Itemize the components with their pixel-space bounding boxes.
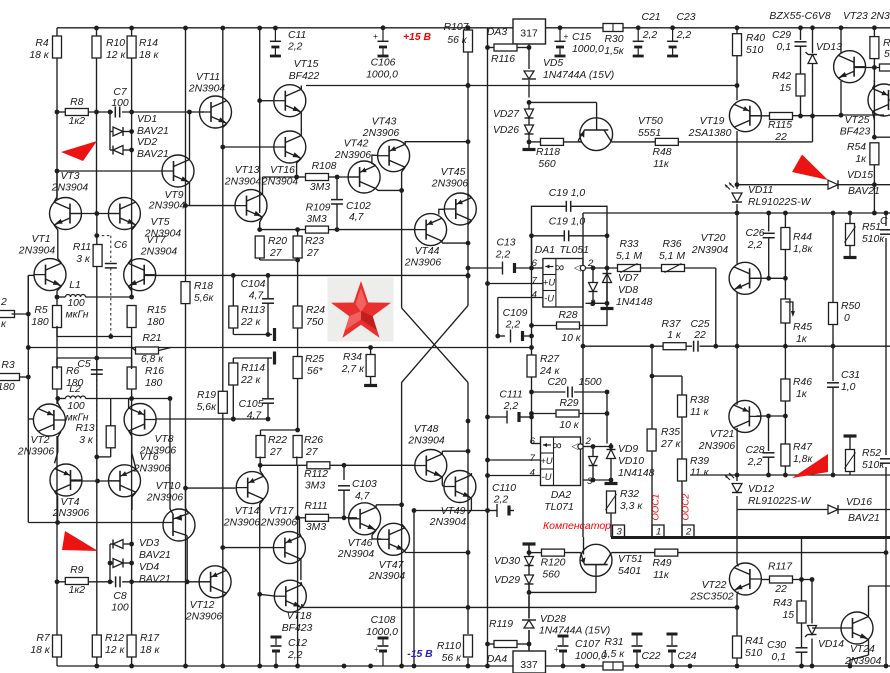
svg-text:R42: R42 <box>772 71 791 82</box>
svg-text:4: 4 <box>532 290 537 301</box>
wire VT2 leads <box>55 399 61 464</box>
node da1p7 dot <box>485 281 490 286</box>
svg-text:мкГн: мкГн <box>66 310 89 321</box>
wire col x886 <box>885 213 887 666</box>
svg-text:BAV21: BAV21 <box>139 574 171 585</box>
wire VT13 leads <box>260 177 297 230</box>
svg-text:R111: R111 <box>304 501 327 512</box>
transistor VT6 pnp <box>109 465 141 497</box>
ground R51 <box>844 256 857 259</box>
node r119 dot <box>485 642 490 647</box>
transistor VT42 pnp <box>348 161 380 193</box>
resistor R113 <box>229 306 238 328</box>
svg-text:27 к: 27 к <box>660 439 681 450</box>
wire R119 row <box>488 643 530 645</box>
svg-text:2N3906: 2N3906 <box>146 493 184 504</box>
capacitor C25 <box>694 341 698 352</box>
wire y85 row <box>306 85 737 87</box>
svg-text:VT50: VT50 <box>638 116 663 127</box>
wire col x131.6 <box>131 28 133 666</box>
svg-text:6,8 к: 6,8 к <box>141 354 164 365</box>
resistor R53 <box>870 28 879 137</box>
transistor VT15 <box>274 85 306 117</box>
svg-text:1к: 1к <box>855 154 867 165</box>
svg-text:2N3904: 2N3904 <box>18 246 56 257</box>
svg-text:56 к: 56 к <box>447 35 467 46</box>
resistor R6 <box>53 367 62 389</box>
wire VT16 leads <box>297 159 302 178</box>
capacitor C108 polar <box>374 638 389 666</box>
transistor VT45 pnp <box>444 193 476 225</box>
capacitor C28 <box>763 416 775 475</box>
resistor R18 <box>181 282 190 304</box>
svg-text:2N3904: 2N3904 <box>188 84 226 95</box>
svg-text:VT20: VT20 <box>701 233 726 244</box>
svg-text:VT22: VT22 <box>702 580 727 591</box>
resistor R3 <box>0 374 28 381</box>
svg-text:R15: R15 <box>147 305 166 316</box>
svg-text:22 к: 22 к <box>240 375 261 386</box>
svg-text:R33: R33 <box>619 239 638 250</box>
wire VT15-VT16 <box>300 112 302 135</box>
svg-text:2,2: 2,2 <box>676 30 692 41</box>
node c20 dots <box>529 390 609 395</box>
wire DA2 pin4 <box>488 475 541 477</box>
capacitor C7 <box>115 107 119 118</box>
svg-text:DA4: DA4 <box>487 654 507 665</box>
svg-text:560: 560 <box>542 570 560 581</box>
svg-text:27: 27 <box>269 248 283 259</box>
resistor R7 <box>53 635 62 657</box>
node vt46c dot <box>399 502 404 507</box>
diode VD2 <box>113 146 123 155</box>
svg-text:VD5: VD5 <box>543 58 563 69</box>
resistor R44 <box>781 213 790 278</box>
svg-text:C25: C25 <box>690 319 709 330</box>
resistor R112 <box>307 462 330 469</box>
node vt43 out <box>466 83 471 144</box>
svg-text:R36: R36 <box>662 239 681 250</box>
crossover X wires <box>402 306 468 383</box>
wire col x401.6 <box>401 190 403 666</box>
node vd26 bot <box>527 140 532 145</box>
wire right rail <box>581 344 890 349</box>
svg-text:R32: R32 <box>620 489 639 500</box>
svg-text:1N4148: 1N4148 <box>618 468 655 479</box>
svg-text:R49: R49 <box>652 558 671 569</box>
svg-text:VD14: VD14 <box>818 639 844 650</box>
wire out pin3 <box>586 302 608 304</box>
wire R48 out <box>678 116 812 142</box>
diode VD15 <box>828 180 838 189</box>
svg-text:C13: C13 <box>496 238 515 249</box>
wire L2 row <box>58 398 170 400</box>
wire VD1 branch <box>110 112 132 150</box>
pot R45 <box>781 278 795 346</box>
red marker triangle 3 <box>792 155 828 181</box>
ground R52 <box>844 434 857 437</box>
wire DA1 pin4 <box>498 298 543 337</box>
wire R120 row <box>529 552 581 554</box>
resistor R48 <box>655 138 678 145</box>
resistor R9 <box>65 578 88 585</box>
wire y171 to VT9 <box>57 170 162 172</box>
svg-text:VT1: VT1 <box>31 234 50 245</box>
diode VD27 <box>525 109 534 118</box>
svg-text:R110: R110 <box>437 641 461 652</box>
svg-text:VD29: VD29 <box>494 575 520 586</box>
svg-text:C7: C7 <box>113 87 128 98</box>
svg-text:1000,0: 1000,0 <box>366 70 398 81</box>
svg-text:C111: C111 <box>499 390 522 401</box>
capacitor C23 <box>667 28 678 56</box>
svg-text:R5: R5 <box>34 305 48 316</box>
svg-text:VD30: VD30 <box>494 556 520 567</box>
transistor VT25 pnp <box>868 84 890 116</box>
svg-text:R112: R112 <box>304 469 328 480</box>
node r3 dot <box>26 345 31 379</box>
node VT9 dots <box>183 110 192 208</box>
resistor R116 <box>494 44 517 51</box>
svg-text:VT17: VT17 <box>269 506 295 517</box>
svg-text:C23: C23 <box>676 12 695 23</box>
diode VD29 <box>525 575 534 584</box>
wire VT3-VT5 bases <box>70 213 120 215</box>
node r54 bot <box>872 182 877 187</box>
svg-text:2,2: 2,2 <box>495 250 511 261</box>
resistor R41 <box>733 636 742 666</box>
wire bottom -15V bus <box>57 665 890 667</box>
wire bus y=213 <box>583 212 890 214</box>
svg-text:BF423: BF423 <box>282 623 313 634</box>
node r38 dot <box>650 374 655 379</box>
wire R115 row <box>793 113 844 118</box>
svg-text:TL071: TL071 <box>544 502 573 513</box>
inductor L1 <box>66 295 86 298</box>
svg-text:2,2: 2,2 <box>287 42 303 53</box>
transistor VT16 <box>274 131 306 163</box>
capacitor C20 <box>568 387 572 398</box>
node c105 dots <box>231 417 270 422</box>
node r109 dots <box>257 227 339 232</box>
resistor R22 <box>256 436 265 458</box>
svg-text:R54: R54 <box>847 142 866 153</box>
svg-text:3M3: 3M3 <box>306 522 326 533</box>
svg-text:3: 3 <box>590 298 596 309</box>
wire vt4 bottom join <box>0 0 1 1</box>
wire R8 row <box>57 111 204 113</box>
svg-text:VT48: VT48 <box>414 424 439 435</box>
svg-text:C24: C24 <box>677 651 696 662</box>
svg-text:R108: R108 <box>312 161 337 172</box>
wire VT3 leads <box>54 171 62 263</box>
svg-text:BAV21: BAV21 <box>137 149 169 160</box>
node c111 dots <box>485 415 534 420</box>
svg-text:1: 1 <box>656 527 661 538</box>
transistor VT12 pnp <box>199 566 231 598</box>
svg-text:100: 100 <box>67 401 85 412</box>
wire DA1 pin6 <box>532 267 543 269</box>
svg-text:мкГн: мкГн <box>66 413 89 424</box>
wire VT12 base <box>122 581 210 583</box>
node c31 dots <box>831 344 836 478</box>
svg-text:2N3906: 2N3906 <box>17 447 55 458</box>
svg-text:12 к: 12 к <box>105 645 125 656</box>
resistor R36 slashed <box>641 264 716 273</box>
svg-text:R35: R35 <box>661 427 680 438</box>
svg-text:6: 6 <box>532 258 538 269</box>
svg-text:2,2: 2,2 <box>747 240 763 251</box>
node r112 dots <box>258 463 347 468</box>
capacitor C19a <box>566 201 570 212</box>
svg-text:2N3904: 2N3904 <box>51 183 89 194</box>
svg-text:R119: R119 <box>489 619 513 630</box>
wire R20R23 bottom <box>260 258 298 260</box>
capacitor C30 <box>796 648 808 652</box>
wire col x487.5 <box>487 28 489 666</box>
svg-text:R25: R25 <box>305 354 324 365</box>
node VD dots <box>129 129 134 152</box>
wire r54 right <box>874 136 890 138</box>
wire VT18 base <box>260 594 275 596</box>
wire col x297.6 <box>297 230 299 666</box>
svg-text:12 к: 12 к <box>106 50 126 61</box>
resistor R26 <box>293 436 302 458</box>
svg-text:VT5: VT5 <box>150 217 169 228</box>
svg-text:5401: 5401 <box>618 566 641 577</box>
svg-text:R8: R8 <box>70 97 84 108</box>
node r46 dots <box>766 473 788 478</box>
wire col x833 <box>832 213 834 346</box>
svg-text:C5: C5 <box>77 359 91 370</box>
wire col x222.8 <box>222 28 224 666</box>
node c109 dot <box>495 334 533 339</box>
transistor VT19 pnp <box>729 100 761 132</box>
wire VT23 base out <box>854 67 885 69</box>
svg-text:27: 27 <box>306 248 320 259</box>
wire top +15V bus <box>57 27 890 29</box>
transistor VT21 pnp <box>729 400 761 432</box>
resistor R43 <box>797 601 806 623</box>
svg-text:180: 180 <box>0 382 15 393</box>
svg-text:11к: 11к <box>653 570 670 581</box>
capacitor C104 <box>262 299 274 303</box>
wire DA2 pin6 <box>532 443 541 445</box>
svg-text:510к: 510к <box>862 460 885 471</box>
node vt48c dot <box>466 419 471 454</box>
transistor VT50 rotated <box>579 118 613 151</box>
resistor R115 <box>770 113 793 120</box>
svg-text:VD27: VD27 <box>493 109 520 120</box>
wire VT21 base <box>757 415 786 417</box>
svg-text:2N3906: 2N3906 <box>260 518 298 529</box>
resistor R51 slashed <box>845 213 856 256</box>
op-amp DA1 <box>543 259 586 308</box>
wire VD3 branch <box>110 544 132 581</box>
transistor VT48 <box>415 450 447 482</box>
svg-text:VD15: VD15 <box>847 170 873 181</box>
transistor VT43 pnp <box>378 140 410 172</box>
svg-text:VT10: VT10 <box>156 481 181 492</box>
node R9 dots <box>55 561 134 585</box>
node c104 dot <box>266 332 271 337</box>
svg-text:0: 0 <box>844 313 850 324</box>
wire y=509.5 VD16 row <box>737 509 890 511</box>
svg-text:VT14: VT14 <box>235 506 260 517</box>
svg-text:3,3 к: 3,3 к <box>620 501 643 512</box>
wire VT8 row y419 <box>156 418 235 420</box>
transistor VT47 <box>378 523 410 555</box>
svg-text:R21: R21 <box>142 333 161 344</box>
wire C105 <box>233 358 268 419</box>
svg-text:R113: R113 <box>241 305 265 316</box>
svg-text:C: C <box>880 216 888 227</box>
wire VT1 leads <box>57 286 62 297</box>
wire VD28 col <box>528 596 530 619</box>
svg-text:VT43: VT43 <box>372 117 397 128</box>
svg-text:C19 1,0: C19 1,0 <box>549 188 586 199</box>
transistor VT22 <box>729 563 761 595</box>
svg-text:4,7: 4,7 <box>249 291 265 302</box>
wire r54 to bus <box>873 185 875 213</box>
wire VT18 emitter row <box>302 605 740 610</box>
svg-text:DA1: DA1 <box>535 245 555 256</box>
svg-text:R40: R40 <box>746 33 765 44</box>
node bottom bus dots <box>94 664 888 669</box>
wire x652 col <box>651 346 653 537</box>
wire VT6 leads <box>132 492 136 510</box>
diode VD5 zener <box>522 44 536 98</box>
svg-text:R41: R41 <box>745 636 764 647</box>
node c12 dot <box>274 664 279 669</box>
svg-text:2N3904: 2N3904 <box>844 656 882 667</box>
svg-text:24 к: 24 к <box>539 366 560 377</box>
wire R22R26 top <box>261 430 298 436</box>
resistor R47 <box>781 416 790 475</box>
resistor R24 <box>293 306 302 328</box>
resistor R15 <box>127 306 136 328</box>
IC DA4 337 <box>513 651 546 673</box>
resistor R50 <box>829 303 838 325</box>
svg-text:R43: R43 <box>773 598 792 609</box>
wire VD2930 col <box>528 544 530 592</box>
wire R108 row <box>297 176 360 178</box>
svg-text:2N3904: 2N3904 <box>148 201 186 212</box>
svg-text:R31: R31 <box>604 637 623 648</box>
svg-text:-15 В: -15 В <box>407 649 433 660</box>
svg-text:◁: ◁ <box>574 263 581 273</box>
svg-text:1,0: 1,0 <box>841 382 856 393</box>
svg-text:3M3: 3M3 <box>310 182 330 193</box>
diode VD4 <box>113 559 123 568</box>
wire y522 row <box>28 522 173 524</box>
svg-text:C26: C26 <box>745 228 764 239</box>
node y85 dots <box>466 83 740 88</box>
svg-text:750: 750 <box>306 317 324 328</box>
svg-text:R13: R13 <box>75 423 94 434</box>
svg-text:VD16: VD16 <box>846 497 872 508</box>
wire VT23 emitter <box>841 81 884 115</box>
resistor R40 <box>733 34 742 56</box>
node da1out dots <box>591 266 610 271</box>
red marker triangle 4 <box>792 454 828 478</box>
resistor R49 <box>655 549 678 556</box>
capacitor C11 <box>270 28 281 56</box>
capacitor C22 <box>632 634 643 666</box>
wire VT23 collector <box>840 28 842 53</box>
svg-text:C15: C15 <box>572 32 591 43</box>
svg-text:2,2: 2,2 <box>505 320 521 331</box>
svg-text:R23: R23 <box>305 236 324 247</box>
resistor R54 <box>870 143 879 185</box>
ground R118 <box>523 142 536 150</box>
svg-text:18 к: 18 к <box>140 645 160 656</box>
wire col x185.5 <box>185 28 187 666</box>
svg-text:R26: R26 <box>304 435 323 446</box>
wire DA1 out <box>586 267 620 269</box>
svg-text:2,2: 2,2 <box>493 495 509 506</box>
svg-text:18 к: 18 к <box>29 50 49 61</box>
ground sym R34 <box>364 384 377 387</box>
node da2p4 dot <box>485 473 490 478</box>
connector pin 2 box <box>682 525 694 537</box>
wire VT46 leads <box>372 505 402 539</box>
resistor R37 <box>663 343 686 350</box>
wire VT11 leads <box>223 124 227 128</box>
svg-text:BAV21: BAV21 <box>848 513 880 524</box>
svg-text:R27: R27 <box>540 354 560 365</box>
wire VT1 base <box>28 275 34 316</box>
node vt15b <box>257 98 262 103</box>
wire R113 <box>233 275 268 334</box>
svg-text:R51: R51 <box>862 222 881 233</box>
diode VD14 zener <box>805 626 817 638</box>
capacitor C24 <box>667 634 678 666</box>
svg-text:317: 317 <box>520 28 538 40</box>
node c6 bottom <box>108 334 113 339</box>
wire R9 row <box>57 581 113 583</box>
ground DA1 <box>601 303 614 308</box>
svg-text:R114: R114 <box>241 363 265 374</box>
wire VT10-VT14 <box>186 487 236 489</box>
wire VT16 base <box>223 146 274 148</box>
wire VT15 collector <box>300 86 302 90</box>
svg-text:L1: L1 <box>69 280 81 291</box>
svg-text:C29: C29 <box>772 30 791 41</box>
svg-text:VT42: VT42 <box>344 139 369 150</box>
transistor VT23 <box>834 51 866 83</box>
svg-text:R14: R14 <box>139 38 158 49</box>
svg-text:56 к: 56 к <box>442 653 462 664</box>
node vt18 dot <box>257 592 262 597</box>
resistor R110 <box>464 635 473 657</box>
svg-text:11 к: 11 к <box>690 468 710 479</box>
svg-text:18 к: 18 к <box>30 645 50 656</box>
diode VD3 <box>113 540 123 549</box>
svg-text:2,2: 2,2 <box>747 457 763 468</box>
svg-text:R116: R116 <box>491 54 515 65</box>
svg-text:R37: R37 <box>661 319 681 330</box>
wire VT14 leads <box>260 465 264 510</box>
resistor R35 <box>647 429 656 451</box>
resistor R11 <box>93 245 102 267</box>
wire R118 row <box>529 141 582 143</box>
wire thick feedback bus <box>611 536 890 539</box>
resistor R34 <box>366 355 375 377</box>
svg-text:C6: C6 <box>114 240 128 251</box>
node r116 dots <box>485 45 531 50</box>
svg-text:C22: C22 <box>641 651 660 662</box>
